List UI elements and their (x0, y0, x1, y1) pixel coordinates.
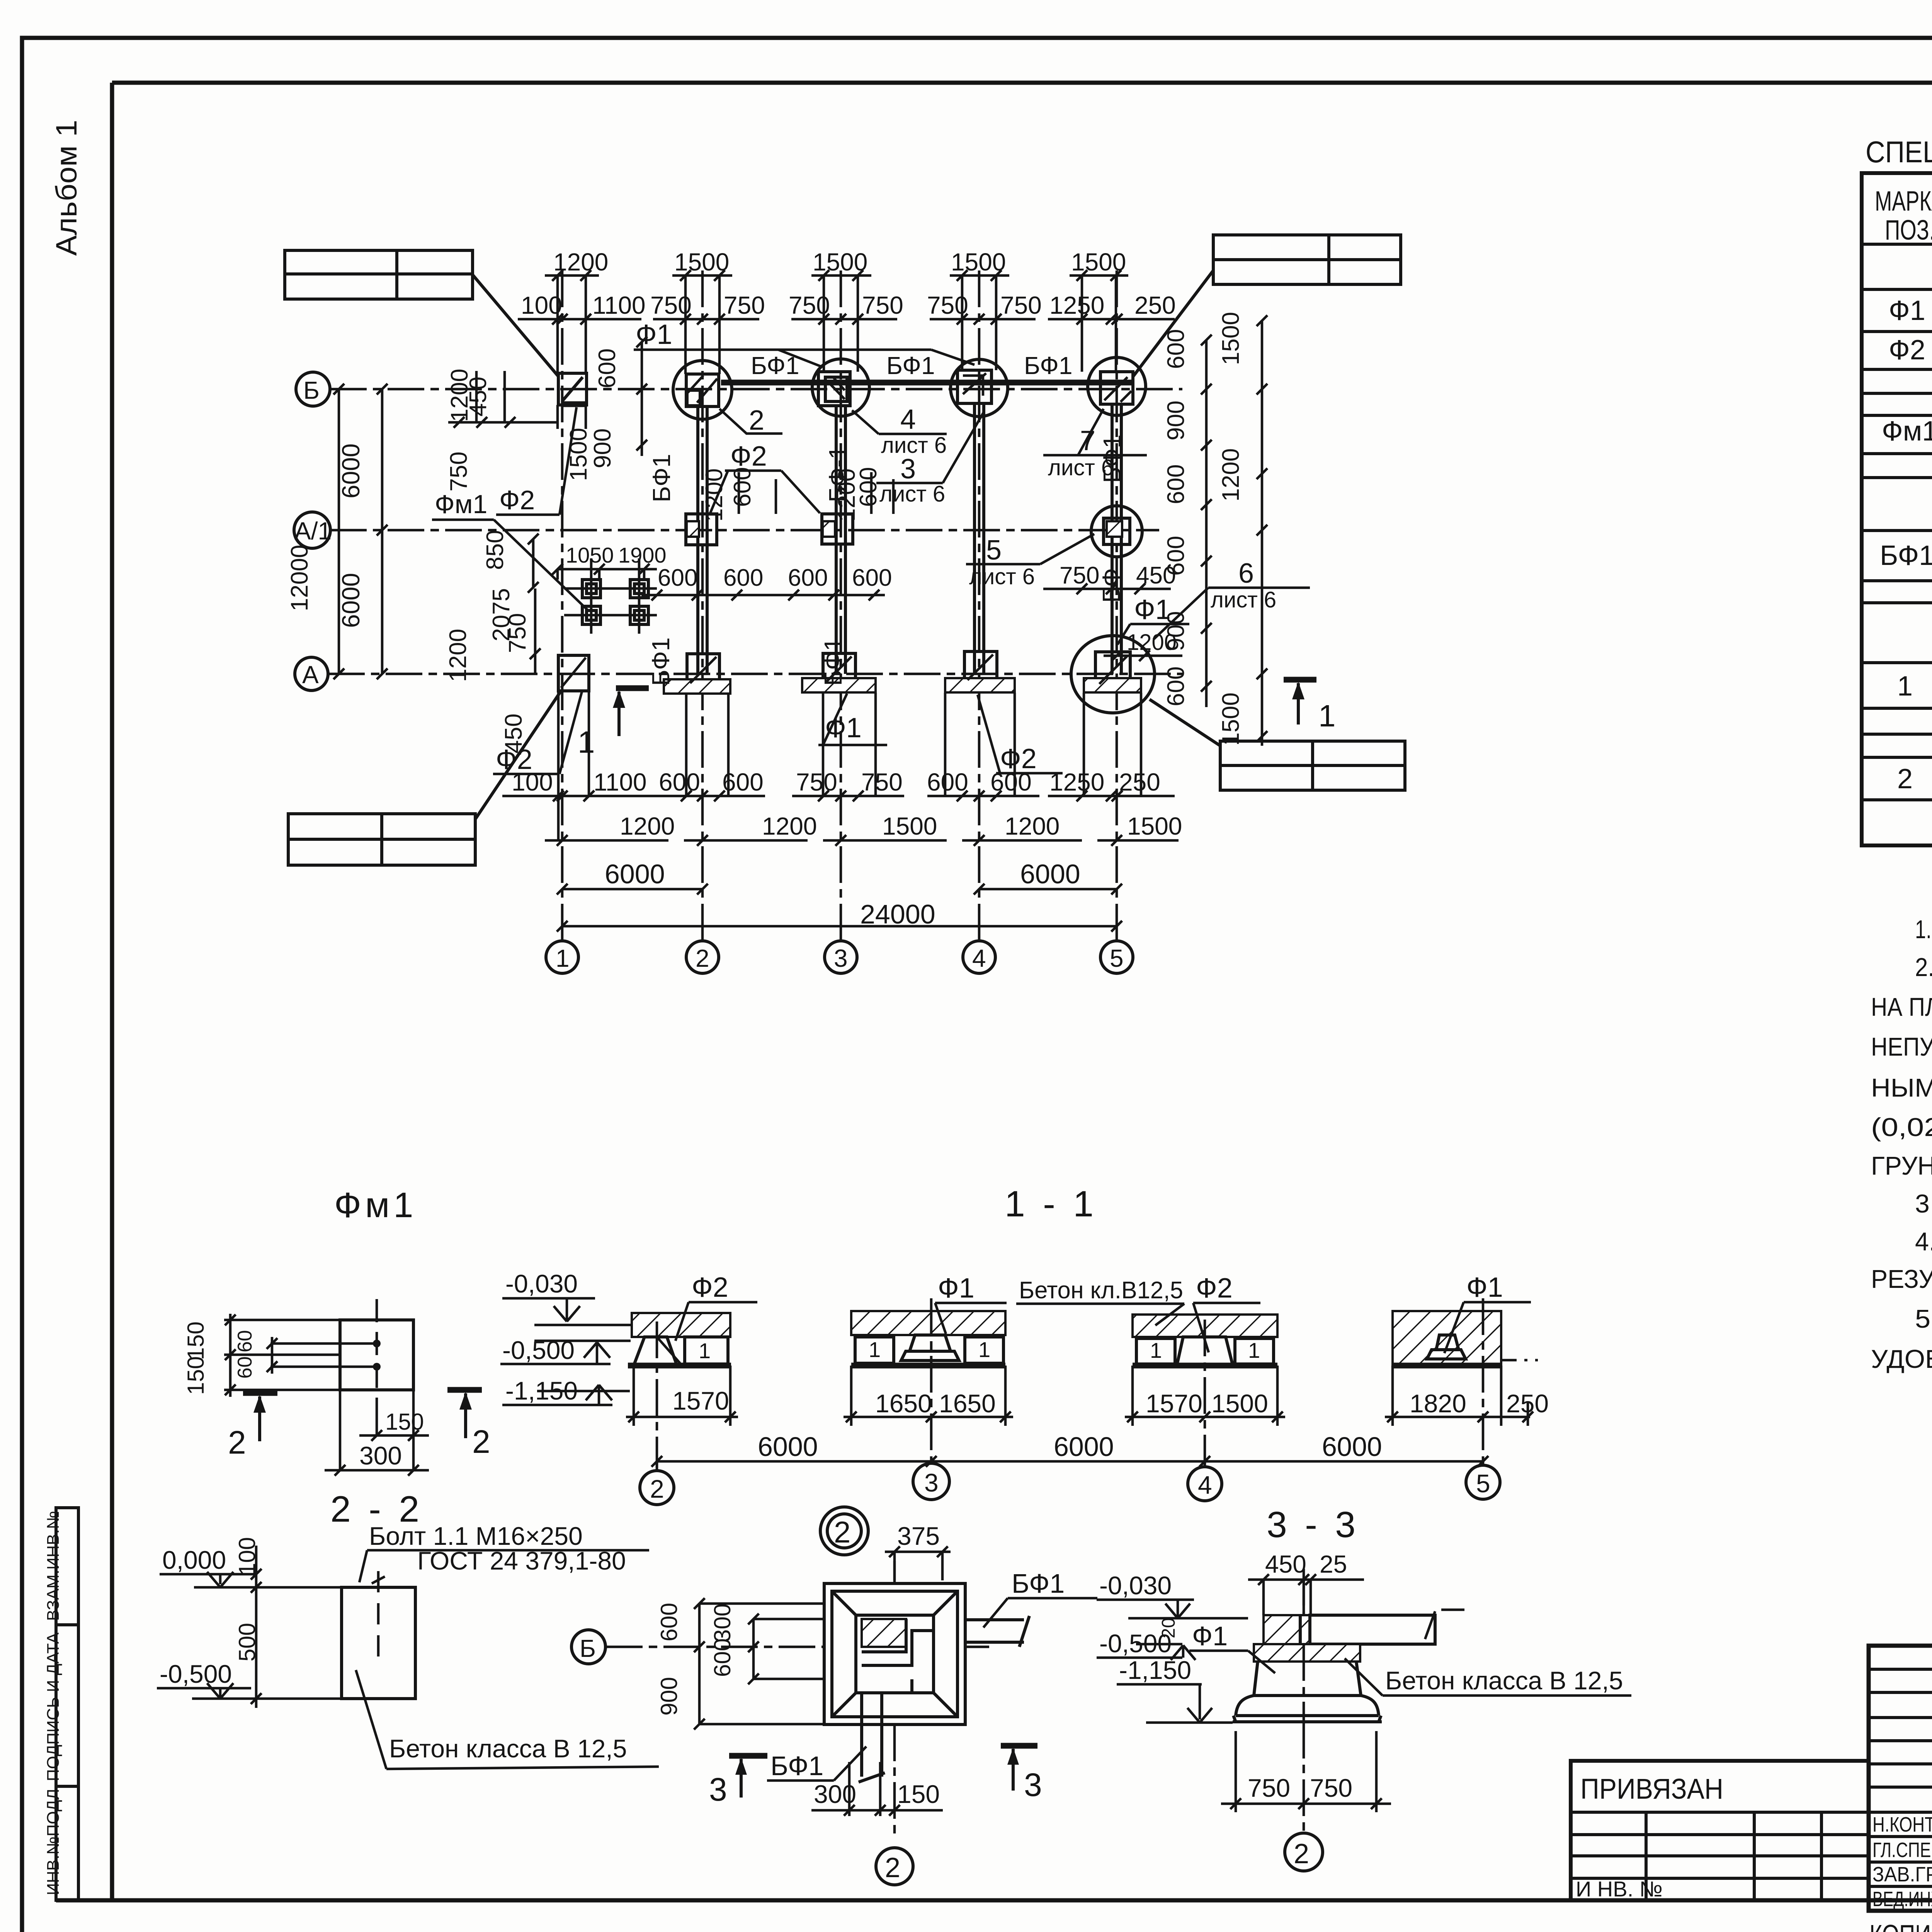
footing А2 (687, 654, 719, 686)
svg-text:Б: Б (303, 376, 320, 404)
footing А/1-5 (1091, 506, 1142, 557)
svg-text:900: 900 (1163, 401, 1189, 440)
svg-text:6000: 6000 (605, 859, 665, 889)
dim row 24000 (562, 925, 1117, 928)
svg-text:1570: 1570 (1146, 1389, 1202, 1418)
svg-text:Н.КОНТР.: Н.КОНТР. (1872, 1813, 1932, 1836)
svg-text:БФ1: БФ1 (751, 352, 799, 379)
leader block top-left (285, 250, 473, 299)
leader block bottom-right (1220, 741, 1405, 790)
svg-text:1500: 1500 (1127, 812, 1182, 840)
svg-text:1250: 1250 (1049, 291, 1104, 319)
svg-text:УДОБРЕНИЙ 0,035 МПа(3,5т/м²).: УДОБРЕНИЙ 0,035 МПа(3,5т/м²). (1871, 1344, 1932, 1374)
svg-text:60: 60 (234, 1330, 256, 1352)
svg-text:-0,500: -0,500 (502, 1336, 575, 1364)
svg-text:Ф2: Ф2 (1000, 743, 1037, 774)
svg-text:6000: 6000 (337, 573, 365, 628)
svg-text:НЕПУЧИНИСТЫЕ,НЕПРОСАДОЧНЫЕ,СО: НЕПУЧИНИСТЫЕ,НЕПРОСАДОЧНЫЕ,СО СЛЕДУЮЩИМИ… (1871, 1032, 1932, 1061)
svg-text:2.ФУНДАМЕНТЫ ЗАПРОЕКТИРОВАНЫ Д: 2.ФУНДАМЕНТЫ ЗАПРОЕКТИРОВАНЫ ДЛЯ СТРОИТЕ… (1915, 953, 1932, 982)
svg-text:750: 750 (724, 291, 765, 319)
left dim line 6000+6000 (381, 389, 384, 674)
svg-text:850: 850 (482, 530, 509, 570)
svg-text:1200: 1200 (701, 468, 728, 522)
svg-text:150: 150 (183, 1321, 209, 1360)
svg-text:0,000: 0,000 (162, 1546, 226, 1574)
svg-text:2: 2 (749, 405, 764, 436)
svg-text:Ф2: Ф2 (499, 485, 535, 515)
svg-text:1500: 1500 (565, 428, 592, 481)
footing Б5 (1088, 357, 1146, 415)
svg-text:6000: 6000 (1054, 1432, 1114, 1462)
svg-text:Ф2: Ф2 (1889, 335, 1925, 366)
svg-text:2075: 2075 (488, 588, 515, 641)
svg-text:600: 600 (723, 565, 763, 591)
footing Б2 (673, 361, 732, 419)
dim row 6000 (562, 888, 702, 891)
footing Б1 (558, 373, 587, 405)
svg-text:Ф2: Ф2 (692, 1272, 728, 1303)
svg-text:Ф1: Ф1 (1466, 1272, 1503, 1303)
svg-text:Бетон класса В 12,5: Бетон класса В 12,5 (1385, 1666, 1623, 1695)
leader block top-right (1213, 235, 1401, 284)
svg-text:ИНВ.№ПОДЛ: ИНВ.№ПОДЛ (44, 1789, 63, 1895)
svg-text:1: 1 (699, 1338, 711, 1363)
axis bubble 4 (963, 941, 995, 973)
svg-text:РЕЗУЛЬТАТЫ ПОЛУЧЕНЫ ПО СИСТЕМЕ: РЕЗУЛЬТАТЫ ПОЛУЧЕНЫ ПО СИСТЕМЕ„АСПФ” (1871, 1265, 1932, 1294)
bottom dim row 1 (502, 795, 657, 798)
svg-text:600: 600 (656, 1603, 682, 1641)
svg-text:лист 6: лист 6 (1211, 587, 1276, 612)
svg-text:600: 600 (658, 565, 697, 591)
svg-text:1650: 1650 (875, 1389, 932, 1418)
svg-text:600: 600 (855, 467, 882, 507)
svg-text:НЫМИ ХАРАКТЕРИСТИКАМИ : Ψᴴ=0,4: НЫМИ ХАРАКТЕРИСТИКАМИ : Ψᴴ=0,49 РАД(28°)… (1871, 1073, 1932, 1102)
svg-text:СПЕЦИФИКАЦИЯ К СХЕМЕ РАСПОЛОЖЕ: СПЕЦИФИКАЦИЯ К СХЕМЕ РАСПОЛОЖЕНИЯ ФУНДАМ… (1866, 135, 1932, 169)
svg-text:1.ОТМЕТКА НИЗА ЗАЛОЖЕНИЯ ФУНДА: 1.ОТМЕТКА НИЗА ЗАЛОЖЕНИЯ ФУНДАМЕНТОВ - 1… (1915, 915, 1932, 944)
node 2 double circle (820, 1507, 868, 1555)
svg-text:600: 600 (729, 467, 756, 507)
beam БФ1 axis 5 (1111, 404, 1114, 674)
svg-text:1: 1 (556, 944, 570, 972)
svg-text:1100: 1100 (592, 291, 646, 319)
svg-text:Ф2: Ф2 (1196, 1273, 1233, 1304)
svg-text:3 - 3: 3 - 3 (1267, 1504, 1359, 1545)
leader block bottom-left (288, 814, 475, 865)
svg-text:1500: 1500 (1218, 312, 1244, 365)
svg-text:3: 3 (834, 944, 848, 972)
svg-text:ВЗАМ.ИНВ.№: ВЗАМ.ИНВ.№ (44, 1511, 63, 1621)
svg-text:Бетон класса В 12,5: Бетон класса В 12,5 (389, 1734, 627, 1763)
svg-text:2: 2 (696, 944, 709, 972)
node 2 bottom bubble 2 (876, 1848, 913, 1885)
svg-text:12000: 12000 (286, 545, 313, 611)
axis line А (328, 673, 1182, 675)
bottom dim row 2 (545, 839, 668, 842)
svg-text:500: 500 (234, 1623, 260, 1662)
svg-text:ПОДПИСЬ И ДАТА: ПОДПИСЬ И ДАТА (44, 1632, 63, 1781)
axis bubble 3 (825, 941, 857, 973)
svg-text:НА ПЛОЩАДКАХ СО СПОКОЙНЫМ РЕЛЬ: НА ПЛОЩАДКАХ СО СПОКОЙНЫМ РЕЛЬЕФОМ.ГРУНТ… (1871, 992, 1932, 1022)
svg-text:1: 1 (578, 725, 595, 759)
axis bubble 2 (686, 941, 719, 973)
Фм1 left dims (229, 1314, 232, 1397)
svg-text:600: 600 (722, 768, 764, 796)
svg-text:150: 150 (385, 1409, 424, 1435)
svg-text:300: 300 (709, 1604, 735, 1642)
svg-text:ГЛ.СПЕЦ.: ГЛ.СПЕЦ. (1872, 1838, 1932, 1862)
svg-text:ВЕД.ИНЖ.: ВЕД.ИНЖ. (1872, 1888, 1932, 1911)
extension lines from footings down (558, 692, 1141, 840)
node 2 axis Б bubble (571, 1630, 605, 1664)
svg-text:Ф1: Ф1 (1192, 1621, 1228, 1651)
svg-text:450: 450 (465, 377, 492, 417)
svg-text:450: 450 (1265, 1550, 1306, 1578)
svg-text:2: 2 (834, 1515, 850, 1549)
svg-text:Бетон кл.В12,5: Бетон кл.В12,5 (1019, 1277, 1183, 1304)
svg-text:150: 150 (897, 1780, 940, 1808)
svg-text:750: 750 (1000, 291, 1042, 319)
section mark 1 bottom (578, 688, 649, 759)
beam БФ1 axis 2 (696, 406, 699, 674)
footing А5 (1071, 636, 1155, 713)
section mark 3 right (1001, 1743, 1037, 1749)
1-1 footing Ф1 axis3 (851, 1311, 1005, 1335)
svg-text:750: 750 (1060, 562, 1099, 589)
svg-text:Фм1: Фм1 (435, 490, 487, 519)
svg-text:6000: 6000 (337, 444, 365, 498)
svg-text:БФ1: БФ1 (770, 1751, 823, 1781)
svg-text:Ф1: Ф1 (1889, 295, 1925, 326)
svg-text:БФ1: БФ1 (819, 637, 847, 686)
node 2 pit plan (824, 1583, 965, 1725)
svg-text:1200: 1200 (762, 812, 817, 840)
axis line 5 (1116, 270, 1118, 941)
svg-text:600: 600 (852, 565, 892, 591)
axis line 3 (840, 270, 842, 941)
1-1 axis stems (657, 1298, 1483, 1468)
svg-text:5.НАГРУЗКА НА ПОЛ СКЛАДА ОТ СК: 5.НАГРУЗКА НА ПОЛ СКЛАДА ОТ СКЛАДИРОВАНИ… (1915, 1304, 1932, 1333)
svg-text:600: 600 (1163, 667, 1189, 706)
svg-text:3.ЛИСТ СМОТРЕТЬ СОВМЕСТНО С ЛИ: 3.ЛИСТ СМОТРЕТЬ СОВМЕСТНО С ЛИСТОМ АС-Б. (1915, 1189, 1932, 1218)
section mark 3 left (729, 1753, 767, 1759)
svg-text:БФ1: БФ1 (647, 637, 675, 686)
svg-text:-1,150: -1,150 (1119, 1656, 1191, 1684)
footing Б3 (812, 359, 869, 416)
svg-text:375: 375 (897, 1522, 940, 1550)
svg-text:5: 5 (1476, 1469, 1490, 1498)
svg-text:А/1: А/1 (294, 517, 332, 545)
node 2 beam right (965, 1616, 1029, 1647)
svg-text:Фм1: Фм1 (1882, 416, 1932, 447)
1-1 footing Ф1 axis5 (1393, 1311, 1501, 1366)
3-3 axis stem (1303, 1569, 1305, 1833)
svg-text:100: 100 (234, 1537, 260, 1576)
footing А1 (558, 655, 589, 691)
inner frame left line (110, 83, 114, 1900)
3-3 column (1264, 1615, 1310, 1644)
footing А3 (823, 653, 855, 685)
svg-text:750: 750 (1310, 1774, 1352, 1802)
svg-text:600: 600 (788, 565, 828, 591)
svg-text:1820: 1820 (1410, 1389, 1466, 1418)
svg-text:КОПИРОВАЛ ЗАВЬЯЛОВА ФОРМАТ А2: КОПИРОВАЛ ЗАВЬЯЛОВА ФОРМАТ А2 (1869, 1920, 1932, 1932)
svg-text:60: 60 (234, 1356, 256, 1379)
Фм1 section marks 2 (228, 1390, 490, 1461)
section mark 1 right (1284, 680, 1336, 733)
svg-text:2: 2 (885, 1852, 900, 1883)
foundation beam БФ1 along Б (721, 380, 1133, 386)
svg-text:Ф1: Ф1 (938, 1273, 975, 1304)
axis line А/1 (330, 529, 1159, 532)
svg-text:1500: 1500 (1211, 1389, 1268, 1418)
svg-text:1500: 1500 (674, 248, 729, 276)
footing А/1-3 (822, 514, 853, 544)
axis line 2 (701, 270, 704, 941)
1-1 axis bubbles (640, 1471, 674, 1505)
axis line Б (330, 388, 1182, 391)
svg-text:БФ1: БФ1 (1098, 434, 1126, 483)
svg-text:600: 600 (709, 1638, 735, 1677)
svg-text:1: 1 (1150, 1338, 1162, 1362)
top dim row 2 (518, 318, 641, 321)
svg-text:1: 1 (869, 1337, 881, 1362)
svg-text:4: 4 (1198, 1471, 1212, 1499)
beam БФ1 axis 4 (973, 403, 976, 674)
svg-text:БФ-1: БФ-1 (824, 446, 852, 502)
svg-text:И НВ. №: И НВ. № (1576, 1877, 1663, 1901)
svg-text:1900: 1900 (618, 543, 667, 567)
svg-text:2: 2 (228, 1424, 246, 1461)
svg-text:ПОЗ.: ПОЗ. (1885, 215, 1932, 246)
2-2 column (342, 1587, 415, 1699)
svg-text:Болт 1.1 М16×250: Болт 1.1 М16×250 (369, 1522, 583, 1550)
svg-text:1: 1 (1248, 1338, 1260, 1362)
axis line 1 (561, 270, 564, 941)
svg-text:ПРИВЯЗАН: ПРИВЯЗАН (1580, 1773, 1723, 1805)
svg-text:-0,500: -0,500 (160, 1660, 232, 1688)
left dim line 12000 (338, 389, 340, 674)
svg-text:1200: 1200 (1005, 812, 1060, 840)
svg-text:2: 2 (650, 1475, 664, 1503)
svg-text:Фм1: Фм1 (334, 1185, 417, 1225)
svg-text:1: 1 (1897, 671, 1913, 702)
Фм1 plan square (340, 1320, 413, 1390)
svg-text:1200: 1200 (553, 248, 608, 276)
svg-text:6: 6 (1238, 558, 1254, 589)
svg-text:4: 4 (900, 404, 916, 435)
svg-text:3: 3 (709, 1771, 727, 1808)
svg-text:600: 600 (594, 349, 621, 388)
svg-text:6000: 6000 (1322, 1432, 1382, 1462)
svg-text:1200: 1200 (445, 629, 471, 682)
Фм1 cluster (582, 580, 600, 598)
svg-text:БФ1: БФ1 (1012, 1568, 1065, 1599)
svg-text:750: 750 (861, 768, 903, 796)
Фм1 bottom dims (340, 1390, 413, 1470)
left margin cells strip (56, 1508, 78, 1900)
axis bubble А (295, 657, 328, 690)
footing А4 (964, 651, 997, 683)
svg-text:1500: 1500 (813, 248, 867, 276)
svg-text:900: 900 (589, 429, 616, 468)
node 2 beam down (859, 1693, 885, 1782)
svg-text:1500: 1500 (1071, 248, 1126, 276)
svg-text:750: 750 (927, 291, 968, 319)
svg-text:750: 750 (789, 291, 830, 319)
svg-text:24000: 24000 (860, 899, 935, 929)
svg-text:300: 300 (359, 1441, 402, 1470)
svg-text:1500: 1500 (951, 248, 1006, 276)
svg-text:900: 900 (656, 1677, 682, 1716)
svg-text:1500: 1500 (1218, 692, 1244, 746)
svg-text:1500: 1500 (882, 812, 937, 840)
svg-text:1 - 1: 1 - 1 (1005, 1184, 1097, 1225)
extension lines to footings (558, 276, 1116, 374)
svg-text:2: 2 (1294, 1838, 1309, 1869)
top dim row 1 (545, 274, 599, 277)
svg-text:лист 6: лист 6 (879, 481, 945, 507)
svg-text:750: 750 (1248, 1774, 1290, 1802)
title block central table (1869, 1646, 1932, 1911)
svg-text:1650: 1650 (939, 1389, 996, 1418)
spec table grid (1862, 173, 1932, 845)
3-3 bubble 2 (1285, 1833, 1323, 1871)
svg-text:750: 750 (862, 291, 903, 319)
node 2 meander (862, 1619, 933, 1693)
axis bubble 5 (1100, 941, 1133, 973)
svg-text:6000: 6000 (1020, 859, 1080, 889)
node 2 axis lines (606, 1561, 989, 1837)
svg-text:(0,02кгс/см²), Е=14,7мПа(150кг: (0,02кгс/см²), Е=14,7мПа(150кгс/см²), γᴴ… (1871, 1113, 1932, 1142)
footing Б4 (951, 359, 1008, 417)
beam БФ1 axis 3 (835, 406, 838, 674)
axis line 4 (978, 270, 981, 941)
privyazan block (1571, 1761, 1869, 1900)
svg-text:1200: 1200 (1218, 448, 1244, 502)
1-1 footing Ф2 axis4 (1133, 1315, 1277, 1337)
svg-text:Альбом 1: Альбом 1 (50, 120, 83, 256)
svg-text:5: 5 (1110, 944, 1124, 972)
svg-text:250: 250 (1134, 291, 1176, 319)
svg-text:750: 750 (796, 768, 837, 796)
axis bubble А/1 (294, 512, 330, 548)
svg-text:600: 600 (1163, 536, 1189, 576)
svg-text:600: 600 (1163, 329, 1189, 369)
axis bubble 1 (546, 941, 578, 973)
svg-text:150: 150 (183, 1356, 209, 1395)
svg-text:БФ: БФ (1097, 568, 1125, 603)
БФ1 rotated labels (647, 434, 1126, 686)
3-3 pedestal (1254, 1644, 1360, 1662)
svg-text:А: А (302, 661, 319, 689)
svg-text:600: 600 (659, 768, 700, 796)
svg-text:100: 100 (521, 291, 562, 319)
svg-text:900: 900 (1163, 611, 1189, 651)
svg-text:3: 3 (1024, 1767, 1042, 1803)
svg-text:25: 25 (1320, 1550, 1347, 1578)
svg-text:ГРУНТОВЫЕ ВОДЫ ОТСУТСТВУЮТ.: ГРУНТОВЫЕ ВОДЫ ОТСУТСТВУЮТ. (1871, 1151, 1932, 1180)
svg-text:450: 450 (500, 714, 527, 753)
2-2 left dims (255, 1546, 258, 1708)
svg-text:Б: Б (580, 1634, 596, 1662)
svg-text:3: 3 (924, 1468, 939, 1497)
svg-text:1: 1 (978, 1337, 990, 1362)
1-1 footing Ф2 axis2 (632, 1313, 730, 1337)
svg-text:3: 3 (900, 454, 916, 485)
svg-text:4: 4 (972, 944, 986, 972)
footing А/1-2 (686, 514, 717, 545)
svg-text:6000: 6000 (758, 1432, 818, 1462)
axis bubble Б (296, 372, 330, 406)
svg-text:4.РАСЧЕТ ФУНДАМЕНТОВ ВЫПОЛНЕН: 4.РАСЧЕТ ФУНДАМЕНТОВ ВЫПОЛНЕН С ПОМОЩЬЮ … (1915, 1227, 1932, 1256)
svg-text:2: 2 (1897, 764, 1913, 794)
node 2 hatched corner (862, 1619, 906, 1647)
svg-text:-0,030: -0,030 (505, 1269, 578, 1298)
svg-text:750: 750 (650, 291, 692, 319)
inner frame top line (112, 81, 1932, 85)
svg-text:ЗАВ.ГР.: ЗАВ.ГР. (1872, 1863, 1932, 1886)
svg-text:БФ1: БФ1 (1880, 540, 1932, 571)
svg-text:БФ1: БФ1 (886, 352, 935, 379)
svg-text:1200: 1200 (620, 812, 675, 840)
svg-text:лист 6: лист 6 (969, 564, 1035, 589)
svg-text:600: 600 (927, 768, 968, 796)
svg-text:2: 2 (472, 1423, 490, 1460)
svg-text:1050: 1050 (566, 543, 614, 567)
svg-text:БФ1: БФ1 (1024, 352, 1073, 379)
svg-text:600: 600 (1163, 464, 1189, 504)
svg-text:БФ1: БФ1 (648, 454, 675, 502)
svg-text:-0,030: -0,030 (1099, 1571, 1172, 1600)
svg-text:1570: 1570 (672, 1386, 729, 1415)
svg-text:1: 1 (1318, 699, 1336, 733)
svg-text:20: 20 (1158, 1618, 1179, 1638)
svg-text:1100: 1100 (594, 768, 647, 796)
svg-text:5: 5 (986, 535, 1002, 566)
node 2 left dims (699, 1604, 824, 1724)
svg-text:МАРКА: МАРКА (1875, 186, 1932, 217)
svg-text:250: 250 (1119, 768, 1160, 796)
3-3 beam (1310, 1615, 1435, 1644)
svg-text:750: 750 (446, 452, 472, 492)
inner frame bottom thick line (56, 1898, 1932, 1903)
